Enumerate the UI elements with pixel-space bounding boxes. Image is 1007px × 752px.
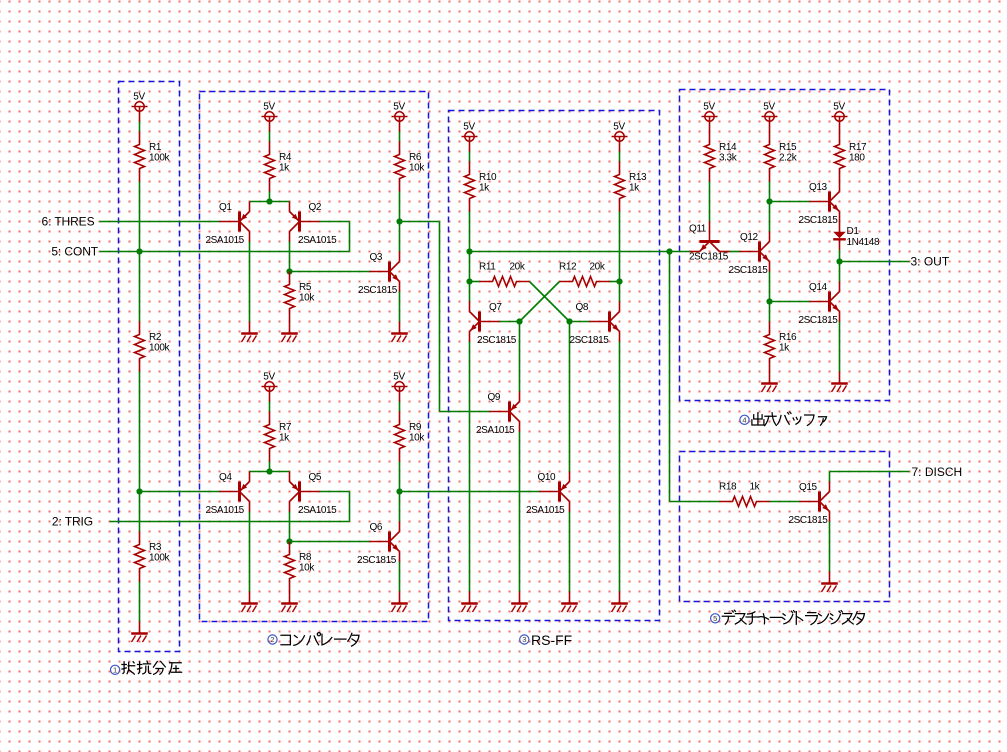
wire [290, 271, 370, 273]
wire [670, 251, 690, 253]
ground [281, 322, 298, 343]
svg-text:20k: 20k [590, 262, 606, 273]
svg-text:Q11: Q11 [689, 224, 707, 235]
resistor R2 [135, 322, 171, 372]
svg-text:R16: R16 [779, 332, 797, 343]
svg-text:1k: 1k [279, 433, 290, 444]
svg-text:10k: 10k [409, 163, 425, 174]
svg-text:2SC1815: 2SC1815 [357, 555, 397, 566]
svg-text:1k: 1k [779, 343, 790, 354]
svg-text:3.3k: 3.3k [719, 153, 738, 164]
ground [461, 592, 478, 613]
wire [569, 322, 571, 472]
svg-text:Q12: Q12 [740, 232, 759, 243]
svg-text:2SC1815: 2SC1815 [570, 335, 610, 346]
svg-text:7: DISCH: 7: DISCH [912, 465, 963, 479]
wire [290, 541, 370, 543]
section label 2: comparator [268, 633, 359, 647]
wire [769, 182, 771, 202]
ground [281, 592, 298, 613]
wire [249, 242, 251, 322]
svg-text:R9: R9 [409, 422, 422, 433]
wire [269, 402, 271, 412]
wire [140, 491, 220, 493]
svg-text:R15: R15 [779, 142, 797, 153]
svg-text:Q8: Q8 [576, 302, 589, 313]
wire [249, 512, 251, 592]
ground [761, 372, 778, 393]
5V power symbol [262, 102, 278, 132]
svg-text:2SC1815: 2SC1815 [477, 335, 517, 346]
wire [399, 562, 401, 592]
transistor Q14 2SC1815 [799, 282, 840, 327]
ground [561, 592, 578, 613]
transistor Q7 2SC1815 [470, 302, 517, 347]
wire [569, 512, 571, 592]
svg-text:2SA1015: 2SA1015 [206, 505, 245, 516]
svg-text:2: TRIG: 2: TRIG [52, 515, 93, 529]
junction [766, 298, 772, 304]
ground [511, 592, 528, 613]
svg-text:R3: R3 [149, 542, 162, 553]
svg-text:R1: R1 [149, 142, 162, 153]
wire [730, 251, 740, 253]
wire [829, 522, 831, 572]
wire [469, 152, 471, 162]
junction [286, 538, 292, 544]
section box 2: comparators [200, 92, 429, 622]
svg-text:10k: 10k [299, 563, 315, 574]
wire [610, 281, 620, 283]
wire [619, 342, 621, 592]
svg-text:2SA1015: 2SA1015 [476, 425, 515, 436]
svg-text:5V: 5V [613, 122, 625, 133]
wire [250, 471, 290, 473]
wire [139, 372, 141, 532]
svg-text:2SC1815: 2SC1815 [799, 315, 839, 326]
wire [139, 122, 141, 132]
wire [769, 202, 771, 232]
junction [136, 488, 142, 494]
transistor Q9 2SA1015 [476, 392, 520, 437]
svg-text:1k: 1k [279, 163, 290, 174]
wire [839, 250, 841, 262]
svg-text:Q15: Q15 [799, 482, 818, 493]
wire [320, 221, 350, 223]
svg-text:2SC1815: 2SC1815 [799, 215, 839, 226]
svg-text:R17: R17 [849, 142, 867, 153]
wire [139, 582, 141, 622]
svg-text:1: 1 [113, 666, 117, 675]
svg-text:2.2k: 2.2k [779, 153, 798, 164]
wire [470, 251, 670, 253]
svg-text:Q10: Q10 [538, 472, 557, 483]
svg-text:20k: 20k [510, 262, 526, 273]
wire [250, 201, 290, 203]
svg-text:Q6: Q6 [370, 522, 383, 533]
transistor Q4 2SA1015 [206, 472, 250, 517]
junction [766, 198, 772, 204]
junction [286, 268, 292, 274]
section box 3: RS-FF [449, 111, 660, 621]
wire [440, 411, 490, 413]
junction [466, 248, 472, 254]
wire [399, 132, 401, 142]
svg-text:R11: R11 [479, 262, 496, 273]
5V power symbol [262, 372, 278, 402]
5V power symbol [132, 92, 148, 122]
section label 4: output buffer [740, 412, 827, 426]
svg-text:2SA1015: 2SA1015 [526, 505, 565, 516]
svg-text:R2: R2 [149, 332, 162, 343]
transistor Q13 2SC1815 [799, 182, 840, 227]
wire [110, 521, 350, 523]
wire [840, 261, 910, 263]
wire [100, 251, 350, 253]
wire [619, 152, 621, 162]
transistor Q3 2SC1815 [358, 252, 400, 297]
wire [770, 201, 810, 203]
wire [469, 342, 471, 592]
svg-text:2SC1815: 2SC1815 [789, 515, 829, 526]
svg-text:5V: 5V [263, 102, 275, 113]
wire [400, 491, 540, 493]
wire [269, 132, 271, 142]
wire [769, 272, 771, 302]
5V power symbol [392, 102, 408, 132]
wire [670, 501, 720, 503]
5V power symbol [832, 102, 848, 132]
svg-text:R12: R12 [559, 262, 577, 273]
5V power symbol [462, 122, 478, 152]
svg-text:5V: 5V [393, 372, 405, 383]
svg-text:5V: 5V [133, 92, 145, 103]
svg-text:2SC1815: 2SC1815 [358, 285, 398, 296]
wire [839, 322, 841, 372]
svg-text:5V: 5V [393, 102, 405, 113]
svg-text:Q13: Q13 [809, 182, 828, 193]
svg-text:Q5: Q5 [309, 472, 322, 483]
svg-text:1k: 1k [479, 183, 490, 194]
ground [131, 622, 148, 643]
svg-text:2SC1815: 2SC1815 [729, 265, 769, 276]
section box 1: resistor divider [119, 82, 180, 652]
svg-text:4: 4 [742, 416, 746, 425]
wire [139, 182, 141, 322]
transistor Q12 2SC1815 [729, 232, 770, 277]
wire [399, 292, 401, 322]
diode D1 1N4148 [833, 222, 880, 250]
wire [770, 301, 810, 303]
svg-text:Q2: Q2 [309, 202, 322, 213]
wire [530, 282, 570, 322]
svg-text:6: THRES: 6: THRES [42, 215, 95, 229]
svg-text:2SA1015: 2SA1015 [298, 235, 337, 246]
ground [611, 592, 628, 613]
resistor R10 [465, 162, 497, 212]
wire [320, 491, 350, 493]
svg-text:R7: R7 [279, 422, 292, 433]
transistor Q10 2SA1015 [526, 472, 570, 517]
transistor Q11 2SC1815 [689, 222, 730, 263]
svg-text:180: 180 [849, 153, 865, 164]
ground [821, 572, 838, 593]
svg-text:2SA1015: 2SA1015 [298, 505, 337, 516]
transistor Q1 2SA1015 [206, 202, 250, 247]
svg-text:R13: R13 [629, 172, 647, 183]
wire [669, 252, 671, 502]
svg-text:R10: R10 [479, 172, 497, 183]
wire [399, 402, 401, 412]
svg-text:5: CONT: 5: CONT [51, 245, 98, 259]
wire [769, 302, 771, 322]
resistor R6 [395, 142, 426, 192]
wire [289, 242, 291, 272]
junction [136, 248, 142, 254]
wire [289, 512, 291, 542]
svg-text:D1: D1 [847, 226, 860, 237]
wire [469, 212, 471, 302]
svg-text:2: 2 [270, 635, 274, 644]
ground [391, 592, 408, 613]
ground [241, 592, 258, 613]
svg-text:R18: R18 [719, 482, 737, 493]
wire [500, 321, 520, 323]
wire [619, 212, 621, 302]
transistor Q6 2SC1815 [357, 522, 400, 567]
wire [399, 462, 401, 492]
wire [519, 322, 521, 392]
wire [399, 492, 401, 522]
wire [519, 432, 521, 592]
junction [516, 318, 522, 324]
transistor Q5 2SA1015 [290, 472, 338, 517]
svg-text:Q1: Q1 [219, 202, 232, 213]
svg-text:Q7: Q7 [489, 302, 502, 313]
wire [349, 222, 351, 252]
junction [836, 258, 842, 264]
svg-text:1k: 1k [629, 183, 640, 194]
svg-text:R8: R8 [299, 552, 312, 563]
junction [266, 468, 272, 474]
svg-text:Q9: Q9 [488, 392, 501, 403]
transistor Q2 2SA1015 [290, 202, 338, 247]
svg-text:100k: 100k [149, 553, 170, 564]
wire [520, 282, 560, 322]
section label 5: discharge transistor [711, 610, 865, 624]
junction [396, 218, 402, 224]
5V power symbol [392, 372, 408, 402]
svg-text:R6: R6 [409, 152, 422, 163]
svg-text:3: OUT: 3: OUT [911, 255, 950, 269]
svg-text:100k: 100k [149, 153, 170, 164]
svg-text:R14: R14 [719, 142, 737, 153]
junction [466, 278, 472, 284]
wire [770, 501, 800, 503]
svg-text:R5: R5 [299, 282, 312, 293]
junction [566, 318, 572, 324]
section label 1: resistor divider [111, 661, 182, 674]
ground [391, 322, 408, 343]
wire [470, 281, 480, 283]
wire [399, 222, 401, 252]
svg-text:1k: 1k [750, 482, 761, 493]
resistor R9 [395, 412, 426, 462]
svg-text:10k: 10k [299, 293, 315, 304]
resistor R3 [135, 532, 171, 582]
resistor R8 [285, 542, 316, 592]
svg-text:2SA1015: 2SA1015 [206, 235, 245, 246]
svg-text:10k: 10k [409, 433, 425, 444]
wire [100, 221, 220, 223]
5V power symbol [612, 122, 628, 152]
svg-text:Q3: Q3 [370, 252, 383, 263]
wire [269, 192, 271, 202]
resistor R12 [559, 262, 610, 287]
svg-text:5V: 5V [463, 122, 475, 133]
transistor Q15 2SC1815 [789, 482, 830, 527]
svg-text:RS-FF: RS-FF [531, 632, 572, 648]
wire [570, 321, 590, 323]
ground [241, 322, 258, 343]
svg-text:5V: 5V [703, 102, 715, 113]
ground [831, 372, 848, 393]
svg-text:Q14: Q14 [809, 282, 828, 293]
svg-text:100k: 100k [149, 343, 170, 354]
svg-text:1N4148: 1N4148 [847, 237, 880, 248]
resistor R1 [135, 132, 171, 182]
svg-text:2SC1815: 2SC1815 [689, 252, 729, 263]
wire [830, 471, 910, 473]
svg-text:3: 3 [522, 635, 526, 644]
svg-text:5V: 5V [833, 102, 845, 113]
junction [396, 488, 402, 494]
wire [709, 182, 711, 222]
junction [266, 198, 272, 204]
transistor Q8 2SC1815 [570, 302, 620, 347]
resistor R11 [479, 262, 530, 287]
section box 5: discharge [680, 452, 890, 602]
resistor R4 [265, 142, 292, 192]
junction [616, 278, 622, 284]
wire [400, 221, 440, 223]
resistor R17 [835, 132, 867, 182]
resistor R13 [615, 162, 647, 212]
svg-text:5V: 5V [263, 372, 275, 383]
resistor R7 [265, 412, 292, 462]
resistor R18 [719, 482, 770, 507]
wire [269, 462, 271, 472]
resistor R5 [285, 272, 316, 322]
svg-text:5V: 5V [763, 102, 775, 113]
wire [829, 472, 831, 482]
5V power symbol [762, 102, 778, 132]
svg-text:5: 5 [713, 614, 717, 623]
junction [666, 248, 672, 254]
wire [839, 262, 841, 282]
section box 4: output buffer [680, 90, 890, 401]
resistor R16 [765, 322, 797, 372]
wire [399, 192, 401, 222]
svg-text:R4: R4 [279, 152, 292, 163]
resistor R15 [765, 132, 798, 182]
svg-text:Q4: Q4 [219, 472, 232, 483]
5V power symbol [702, 102, 718, 132]
section label 3: RS-FF [520, 632, 573, 648]
wire [349, 492, 351, 522]
resistor R14 [705, 132, 738, 182]
wire [439, 222, 441, 412]
